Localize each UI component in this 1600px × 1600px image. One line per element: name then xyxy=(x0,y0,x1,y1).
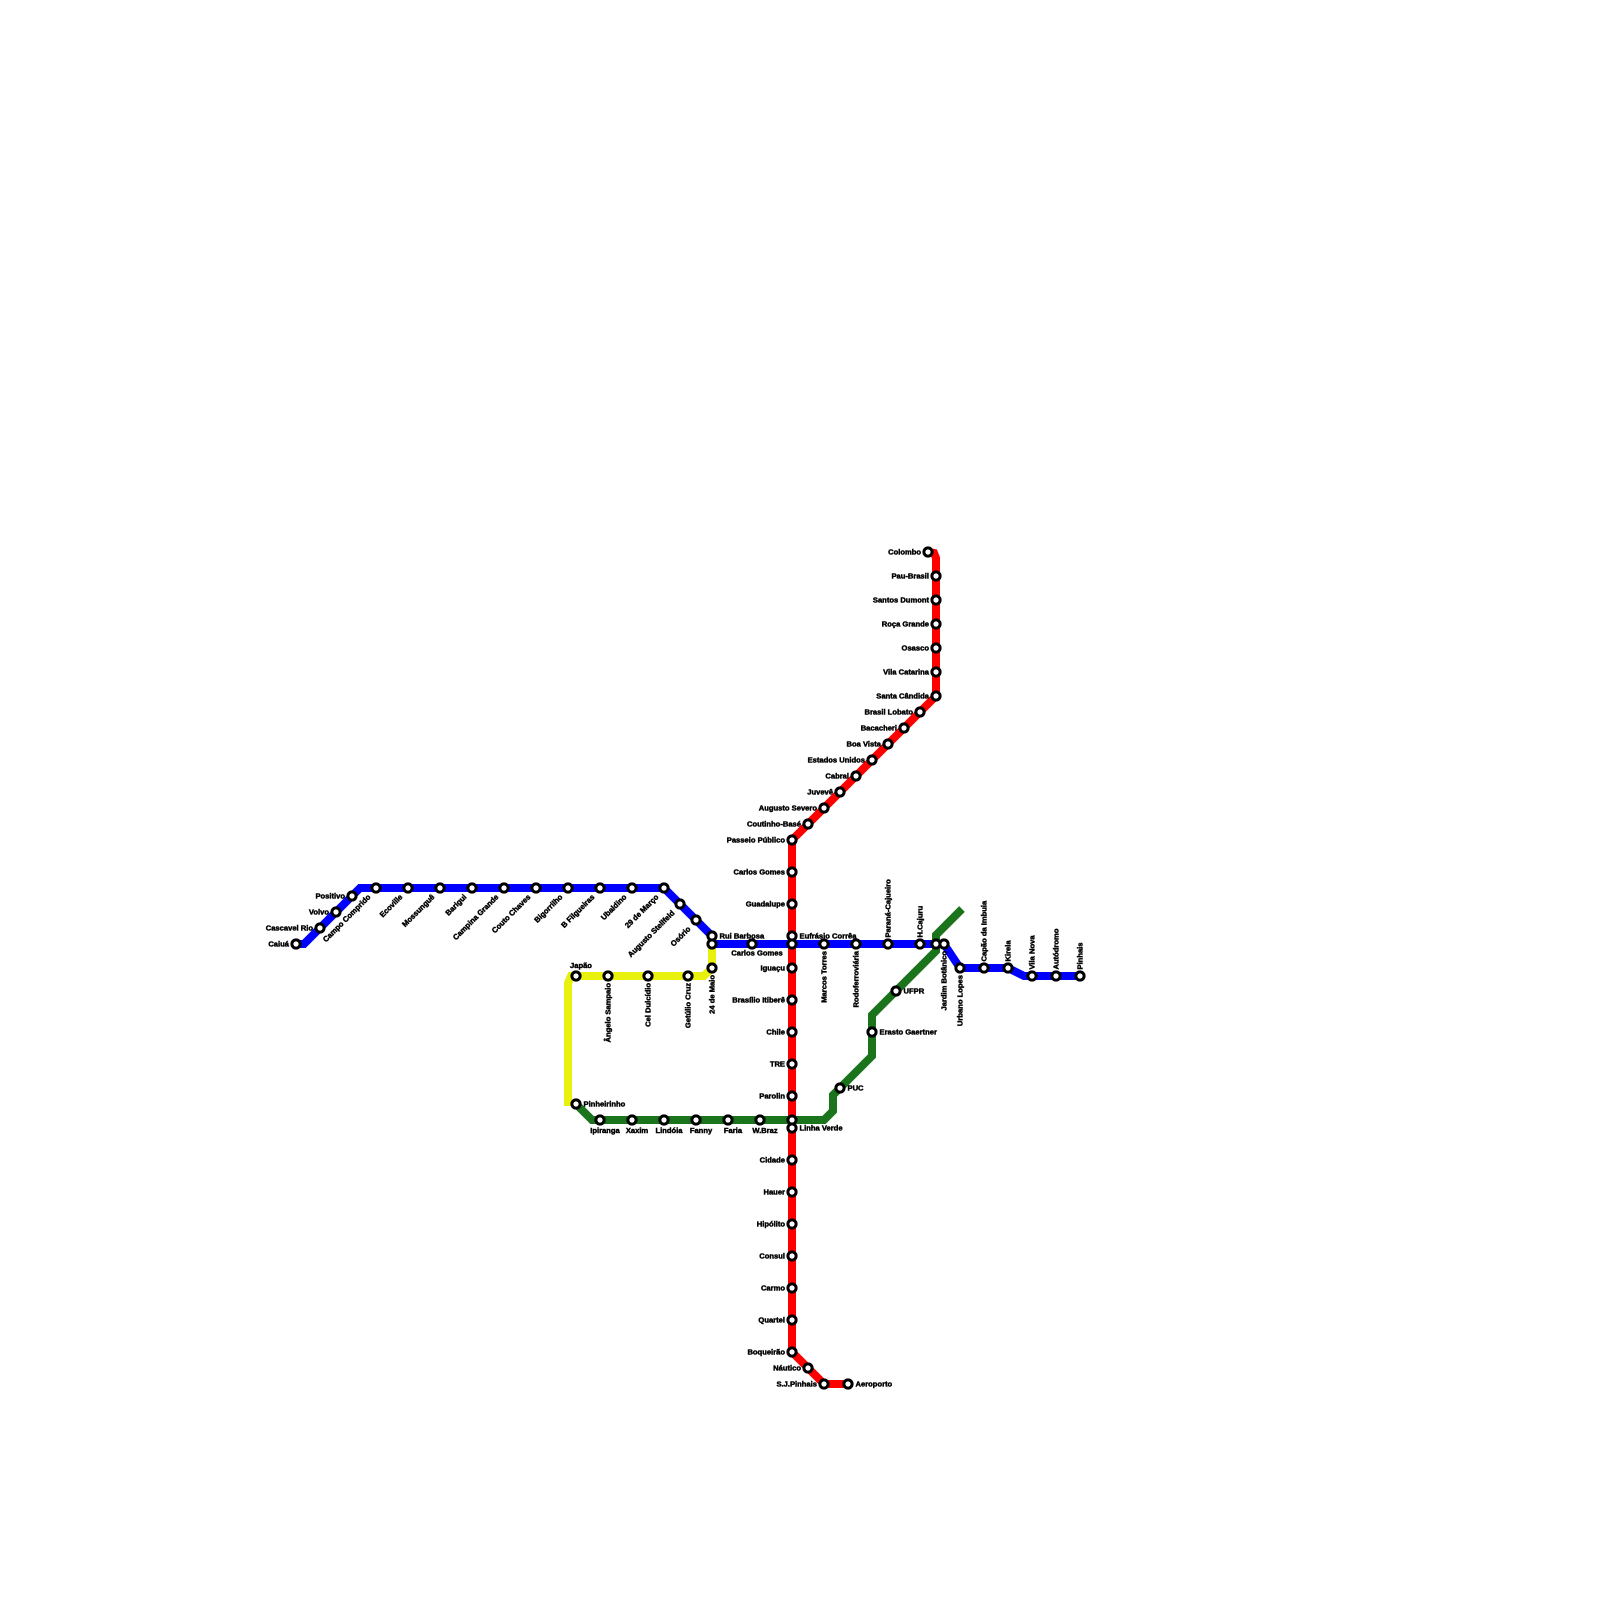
station Boa Vista xyxy=(884,740,892,748)
station 24 de Maio xyxy=(708,964,716,972)
station Carlos Gomes xyxy=(748,940,756,948)
svg-text:Lindóia: Lindóia xyxy=(656,1126,684,1135)
station Osório xyxy=(692,916,700,924)
station Iguaçu xyxy=(788,964,796,972)
station B Filgueiras xyxy=(596,884,604,892)
svg-text:Erasto Gaertner: Erasto Gaertner xyxy=(880,1028,937,1037)
svg-text:Autódromo: Autódromo xyxy=(1052,928,1061,969)
svg-text:Rodoferroviária: Rodoferroviária xyxy=(852,950,861,1007)
svg-text:Volvo: Volvo xyxy=(309,908,329,917)
svg-text:Positivo: Positivo xyxy=(315,892,345,901)
svg-text:Cel Dulcídio: Cel Dulcídio xyxy=(644,983,653,1027)
station Campo Comprido xyxy=(372,884,380,892)
svg-text:Urbano Lopes: Urbano Lopes xyxy=(956,975,965,1026)
svg-text:Passeio Público: Passeio Público xyxy=(727,836,786,845)
station Carlos Gomes xyxy=(788,868,796,876)
station PUC xyxy=(836,1084,844,1092)
station Erasto Gaertner xyxy=(868,1028,876,1036)
station Caiuá xyxy=(292,940,300,948)
svg-text:Ângelo Sampaio: Ângelo Sampaio xyxy=(604,983,613,1043)
svg-text:Faria: Faria xyxy=(724,1126,743,1135)
svg-text:Santos Dumont: Santos Dumont xyxy=(873,596,930,605)
station Coutinho-Basé xyxy=(804,820,812,828)
station 29 de Março xyxy=(660,884,668,892)
svg-text:Chile: Chile xyxy=(766,1028,785,1037)
station Cel Dulcídio xyxy=(644,972,652,980)
station Couto Chaves xyxy=(532,884,540,892)
station Roça Grande xyxy=(932,620,940,628)
station Bacacheri xyxy=(900,724,908,732)
station Consul xyxy=(788,1252,796,1260)
station Marcos Torres xyxy=(820,940,828,948)
station Autódromo xyxy=(1052,972,1060,980)
svg-text:Vila Catarina: Vila Catarina xyxy=(883,668,930,677)
svg-text:Juvevê: Juvevê xyxy=(807,788,833,797)
station TRE xyxy=(788,1060,796,1068)
station Ecoville xyxy=(404,884,412,892)
svg-text:Pinhais: Pinhais xyxy=(1076,942,1085,969)
station H.Cajuru xyxy=(916,940,924,948)
station Hauer xyxy=(788,1188,796,1196)
station Paraná-Cajueiro xyxy=(884,940,892,948)
svg-text:Augusto Severo: Augusto Severo xyxy=(759,804,818,813)
station Augusto Severo xyxy=(820,804,828,812)
svg-text:Jardim Botânico: Jardim Botânico xyxy=(940,951,949,1011)
svg-text:Cabral: Cabral xyxy=(825,772,849,781)
station Passeio Público xyxy=(788,836,796,844)
station Vila Catarina xyxy=(932,668,940,676)
svg-text:Iguaçu: Iguaçu xyxy=(761,964,786,973)
svg-text:Carmo: Carmo xyxy=(761,1284,785,1293)
station Parolin xyxy=(788,1092,796,1100)
blue line xyxy=(296,888,1080,976)
svg-text:Colombo: Colombo xyxy=(888,548,921,557)
svg-text:24 de Maio: 24 de Maio xyxy=(708,975,717,1014)
svg-text:Consul: Consul xyxy=(759,1252,785,1261)
station Pinheirinho xyxy=(572,1100,580,1108)
svg-text:Eufrásio Corrêa: Eufrásio Corrêa xyxy=(800,932,858,941)
svg-text:Boqueirão: Boqueirão xyxy=(747,1348,785,1357)
station Santa Cândida xyxy=(932,692,940,700)
station Augusto Stellfeld xyxy=(676,900,684,908)
station Mossunguê xyxy=(436,884,444,892)
svg-text:Santa Cândida: Santa Cândida xyxy=(876,692,930,701)
station Ipiranga xyxy=(596,1116,604,1124)
red line xyxy=(792,552,936,1384)
svg-text:Carlos Gomes: Carlos Gomes xyxy=(731,949,783,958)
svg-text:Cascavel Rio: Cascavel Rio xyxy=(266,924,314,933)
svg-text:Xaxim: Xaxim xyxy=(626,1126,649,1135)
station Lindóia xyxy=(660,1116,668,1124)
svg-text:Náutico: Náutico xyxy=(773,1364,801,1373)
svg-text:Capão da Imbuia: Capão da Imbuia xyxy=(980,900,989,962)
station Quartel xyxy=(788,1316,796,1324)
svg-text:Brasílio Itiberê: Brasílio Itiberê xyxy=(732,996,785,1005)
station Rodoferroviária xyxy=(852,940,860,948)
svg-text:Hipólito: Hipólito xyxy=(757,1220,786,1229)
station Urbano Lopes xyxy=(956,964,964,972)
svg-text:Pinheirinho: Pinheirinho xyxy=(584,1100,626,1109)
svg-text:Vila Nova: Vila Nova xyxy=(1028,935,1037,970)
green line xyxy=(576,909,962,1120)
svg-text:S.J.Pinhais: S.J.Pinhais xyxy=(776,1380,817,1389)
station Pau-Brasil xyxy=(932,572,940,580)
svg-text:Hauer: Hauer xyxy=(763,1188,785,1197)
station interchange node (712,944) xyxy=(708,940,716,948)
svg-text:Getúlio Cruz: Getúlio Cruz xyxy=(684,983,693,1028)
svg-text:Carlos Gomes: Carlos Gomes xyxy=(734,868,786,877)
station Brasil Lobato xyxy=(916,708,924,716)
station Japão xyxy=(572,972,580,980)
station Pinhais xyxy=(1076,972,1084,980)
station Capão da Imbuia xyxy=(980,964,988,972)
station Volvo xyxy=(332,908,340,916)
station Jardim Botânico xyxy=(940,940,948,948)
station Carmo xyxy=(788,1284,796,1292)
svg-text:PUC: PUC xyxy=(848,1084,865,1093)
svg-text:UFPR: UFPR xyxy=(904,987,925,996)
station W.Braz xyxy=(756,1116,764,1124)
svg-text:Aeroporto: Aeroporto xyxy=(856,1380,893,1389)
station Hipólito xyxy=(788,1220,796,1228)
station interchange node (792,1120) xyxy=(788,1116,796,1124)
station Boqueirão xyxy=(788,1348,796,1356)
station Bigorrilho xyxy=(564,884,572,892)
svg-text:W.Braz: W.Braz xyxy=(752,1126,778,1135)
svg-text:Pau-Brasil: Pau-Brasil xyxy=(891,572,929,581)
station UFPR xyxy=(892,987,900,995)
station Fanny xyxy=(692,1116,700,1124)
station Getúlio Cruz xyxy=(684,972,692,980)
svg-text:Parolin: Parolin xyxy=(759,1092,785,1101)
svg-text:Rui Barbosa: Rui Barbosa xyxy=(720,932,766,941)
yellow line xyxy=(568,944,712,1106)
station Cidade xyxy=(788,1156,796,1164)
station Eufrásio Corrêa xyxy=(788,932,796,940)
svg-text:Ipiranga: Ipiranga xyxy=(590,1126,620,1135)
svg-text:TRE: TRE xyxy=(770,1060,785,1069)
svg-text:Quartel: Quartel xyxy=(758,1316,785,1325)
station Vila Nova xyxy=(1028,972,1036,980)
station Cabral xyxy=(852,772,860,780)
svg-text:Cidade: Cidade xyxy=(760,1156,785,1165)
station Náutico xyxy=(804,1364,812,1372)
station Barigui xyxy=(468,884,476,892)
station Positivo xyxy=(348,892,356,900)
svg-text:Brasil Lobato: Brasil Lobato xyxy=(864,708,913,717)
svg-text:Guadalupe: Guadalupe xyxy=(746,900,785,909)
station interchange node (792,944) xyxy=(788,940,796,948)
station Linha Verde xyxy=(788,1124,796,1132)
station Ângelo Sampaio xyxy=(604,972,612,980)
station Aeroporto xyxy=(844,1380,852,1388)
svg-text:Boa Vista: Boa Vista xyxy=(847,740,882,749)
svg-text:Roça Grande: Roça Grande xyxy=(882,620,929,629)
station Cascavel Rio xyxy=(316,924,324,932)
svg-text:Kirela: Kirela xyxy=(1004,940,1013,962)
station Rui Barbosa xyxy=(708,932,716,940)
station Estados Unidos xyxy=(868,756,876,764)
station Colombo xyxy=(924,548,932,556)
svg-text:Caiuá: Caiuá xyxy=(268,940,289,949)
svg-text:Fanny: Fanny xyxy=(690,1126,713,1135)
svg-text:Osasco: Osasco xyxy=(902,644,930,653)
svg-text:Paraná-Cajueiro: Paraná-Cajueiro xyxy=(884,879,893,938)
station Chile xyxy=(788,1028,796,1036)
station interchange node (936,944) xyxy=(932,940,940,948)
station Brasílio Itiberê xyxy=(788,996,796,1004)
station Campina Grande xyxy=(500,884,508,892)
station Ubaldino xyxy=(628,884,636,892)
station Faria xyxy=(724,1116,732,1124)
svg-text:Estados Unidos: Estados Unidos xyxy=(808,756,865,765)
svg-text:Coutinho-Basé: Coutinho-Basé xyxy=(747,820,801,829)
svg-text:Marcos Torres: Marcos Torres xyxy=(820,951,829,1003)
station S.J.Pinhais xyxy=(820,1380,828,1388)
svg-text:Japão: Japão xyxy=(570,961,592,970)
svg-text:Linha Verde: Linha Verde xyxy=(800,1124,843,1133)
station Kirela xyxy=(1004,964,1012,972)
svg-text:Bacacheri: Bacacheri xyxy=(861,724,897,733)
station Guadalupe xyxy=(788,900,796,908)
station Osasco xyxy=(932,644,940,652)
station Xaxim xyxy=(628,1116,636,1124)
station Juvevê xyxy=(836,788,844,796)
station Santos Dumont xyxy=(932,596,940,604)
svg-text:H.Cajuru: H.Cajuru xyxy=(916,905,925,937)
